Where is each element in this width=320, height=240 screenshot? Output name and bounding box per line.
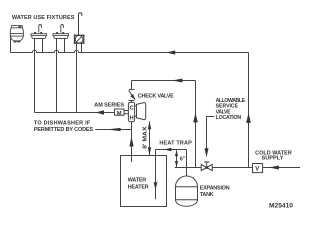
svg-text:SUPPLY: SUPPLY (262, 156, 284, 162)
svg-text:HEAT TRAP: HEAT TRAP (159, 141, 192, 147)
svg-text:H: H (130, 116, 134, 122)
svg-text:WATER: WATER (128, 178, 147, 184)
svg-text:AM SERIES: AM SERIES (94, 103, 124, 109)
svg-text:M: M (117, 111, 122, 117)
svg-text:TANK: TANK (200, 192, 214, 198)
svg-text:V: V (255, 167, 259, 173)
svg-text:PERMITTED BY CODES: PERMITTED BY CODES (34, 127, 94, 133)
svg-text:M25410: M25410 (269, 202, 293, 209)
svg-text:HEATER: HEATER (128, 185, 149, 191)
svg-text:8' MAX: 8' MAX (143, 126, 149, 149)
svg-text:LOCATION: LOCATION (216, 115, 242, 121)
svg-text:WATER USE FIXTURES: WATER USE FIXTURES (12, 15, 75, 21)
svg-text:6": 6" (180, 156, 186, 162)
svg-text:TO DISHWASHER IF: TO DISHWASHER IF (34, 121, 91, 127)
svg-text:CHECK VALVE: CHECK VALVE (138, 94, 174, 100)
svg-text:EXPANSION: EXPANSION (200, 185, 230, 191)
